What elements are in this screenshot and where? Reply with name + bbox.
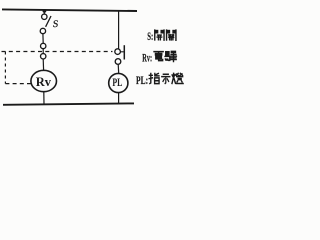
- wire from contact to pilot lamp PL: [117, 64, 120, 73]
- glyph 開: [154, 30, 164, 40]
- svg-text:Rv: Rv: [36, 75, 52, 89]
- svg-text:PL:: PL:: [136, 73, 148, 87]
- tick from contact terminal to blade bar: [120, 51, 123, 53]
- switch S blade: [46, 16, 51, 27]
- glyph 關: [166, 30, 176, 40]
- switch S lower terminal: [40, 28, 45, 33]
- junction dot at top of left branch: [43, 9, 47, 13]
- glyph 電: [154, 52, 163, 61]
- dashed mechanical link horizontal (to relay contact): [2, 51, 113, 53]
- wire from PL to bottom wire: [118, 93, 120, 104]
- glyph 燈: [172, 73, 183, 83]
- left contact lower terminal: [41, 54, 46, 59]
- bottom supply wire: [3, 103, 134, 104]
- wire from top wire to switch S: [43, 11, 45, 14]
- wire from contact to relay coil Rv: [42, 59, 44, 70]
- left contact blade (closed): [42, 49, 44, 54]
- wire from Rv to bottom wire: [43, 92, 45, 105]
- svg-text:Rv:: Rv:: [142, 50, 152, 64]
- relay coil Rv: [31, 70, 57, 91]
- dashed mechanical link vertical left: [4, 52, 6, 84]
- svg-text:S: S: [52, 19, 59, 30]
- relay contact upper terminal: [115, 49, 121, 55]
- pilot lamp PL: [109, 73, 128, 92]
- glyph 驛: [165, 51, 176, 62]
- glyph 示: [162, 74, 170, 83]
- dashed mechanical link horizontal to Rv coil: [5, 83, 31, 85]
- switch S upper terminal: [42, 14, 47, 19]
- relay contact blade bar (open): [123, 45, 125, 59]
- relay contact lower terminal: [115, 59, 121, 65]
- svg-text:PL: PL: [112, 75, 122, 89]
- wire from switch to contact: [42, 34, 44, 44]
- glyph 指: [149, 73, 159, 83]
- top supply wire: [2, 9, 137, 11]
- right branch wire from top: [118, 11, 120, 49]
- left contact upper terminal: [41, 43, 46, 48]
- svg-text:S:: S:: [147, 29, 153, 43]
